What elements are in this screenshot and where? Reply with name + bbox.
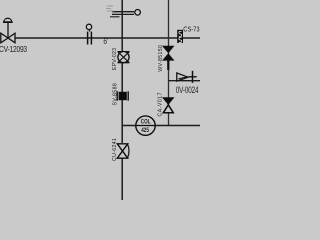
wire: right branch y=80.7 xyxy=(169,80,201,82)
svg-text:CU-6241: CU-6241 xyxy=(112,138,118,161)
svg-text:CA-V017: CA-V017 xyxy=(158,92,164,117)
svg-text:6’: 6’ xyxy=(103,36,108,46)
valve OV-0024 (flag w/ plus) xyxy=(177,71,197,83)
check valve WV-8515 (solid bowtie) xyxy=(162,46,175,70)
valve CV-12093 xyxy=(1,18,15,43)
valve CU-6241 (vertical bowtie) xyxy=(117,143,130,159)
instrument COL-425 xyxy=(136,116,155,135)
wire: main horizontal pipe y=38 xyxy=(15,37,200,39)
inline seal box CS-73 xyxy=(177,30,183,43)
relief valve CA-V017 (solid down tri over open up tri) xyxy=(162,97,175,113)
svg-text:CS-73: CS-73 xyxy=(183,26,200,34)
svg-text:WV-85150: WV-85150 xyxy=(158,45,164,72)
svg-text:SV-8588: SV-8588 xyxy=(113,83,119,106)
svg-text:0V-0024: 0V-0024 xyxy=(176,85,199,95)
valve EPV-023 (globe w/ circle and X) xyxy=(118,52,130,63)
wire: right vertical pipe x=168.5 xyxy=(168,0,170,126)
svg-text:CV-12093: CV-12093 xyxy=(0,44,27,54)
wire: main vertical pipe x=122 xyxy=(121,0,123,200)
blind with circle (top vent) xyxy=(106,6,140,17)
fitting SV-8588 (black inline block) xyxy=(117,91,128,100)
wire: lower horizontal pipe y=125.5 xyxy=(122,125,200,127)
svg-text:425: 425 xyxy=(141,127,149,134)
svg-text:COL: COL xyxy=(141,119,151,126)
svg-text:EPV-023: EPV-023 xyxy=(112,48,118,70)
flange pair with spectacle circle on main pipe xyxy=(86,24,91,44)
